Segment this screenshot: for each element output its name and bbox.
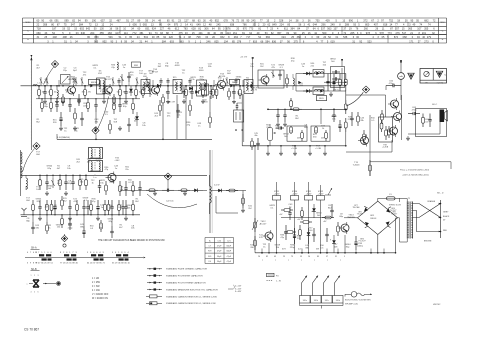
svg-text:15k: 15k: [332, 118, 336, 120]
shielded cable to volume: [241, 94, 243, 146]
supply plug ST11: [273, 196, 281, 201]
svg-text:4: 4: [128, 252, 130, 254]
svg-text:n47: n47: [129, 91, 132, 93]
switch SK-B arrow: [43, 283, 56, 285]
svg-text:47k: 47k: [87, 161, 91, 163]
resistor R48: [325, 130, 327, 133]
fuse F1: [387, 197, 396, 200]
svg-text:0.1: 0.1: [271, 208, 275, 210]
resistor R17b: [345, 74, 347, 80]
svg-text:602: 602: [80, 28, 85, 31]
elco C84: [97, 200, 99, 206]
svg-text:260: 260: [364, 28, 369, 31]
svg-text:BLACK: BLACK: [443, 215, 450, 218]
resistor R45: [290, 126, 292, 127]
wire AF bus: [268, 108, 346, 110]
svg-text:5: 5: [112, 252, 114, 254]
resistor R60: [381, 110, 383, 114]
capacitor C85: [111, 200, 113, 207]
svg-text:+1.3V: +1.3V: [292, 194, 298, 196]
svg-text:47p: 47p: [187, 125, 191, 127]
svg-text:TV 2577: TV 2577: [358, 241, 365, 243]
tuning gang C75: [89, 148, 103, 159]
diode GR6: [130, 86, 132, 89]
svg-text:M4.5: M4.5: [232, 82, 237, 84]
svg-text:5k6: 5k6: [117, 91, 120, 93]
svg-text:676: 676: [226, 28, 231, 31]
svg-text:642: 642: [86, 28, 91, 31]
svg-text:+1.7V: +1.7V: [252, 90, 258, 92]
svg-text:245: 245: [216, 24, 221, 27]
capacitor C47 af in: [257, 138, 259, 143]
svg-text:o: o: [288, 259, 289, 261]
svg-text:220: 220: [169, 36, 174, 39]
table inner dividers: [119, 26, 121, 34]
svg-text:220p: 220p: [199, 79, 205, 81]
resistor R73: [119, 181, 121, 186]
svg-text:952: 952: [215, 20, 220, 23]
antenna A1: [30, 58, 32, 151]
extra grounds below bus: [56, 100, 58, 102]
svg-text:546: 546: [109, 36, 114, 39]
svg-text:10k: 10k: [67, 168, 71, 170]
svg-text:249: 249: [331, 24, 336, 27]
svg-text:1n: 1n: [115, 168, 118, 170]
svg-text:10k: 10k: [131, 228, 135, 230]
resistor R46: [301, 130, 303, 133]
capacitor C6: [103, 86, 105, 92]
speaker box: [416, 109, 447, 137]
terminal strip right: [440, 200, 442, 238]
svg-text:137: 137: [333, 28, 338, 31]
resistor R41: [290, 98, 292, 101]
resistor R80: [32, 200, 34, 204]
resistor R22: [41, 99, 43, 103]
transistor TS12 regulator: [265, 232, 273, 240]
svg-text:2: 2: [34, 275, 35, 277]
wire bridge bottom down: [377, 235, 379, 253]
ground lf: [39, 216, 41, 218]
wire supply mid: [281, 217, 330, 219]
resistor R87: [118, 200, 120, 204]
wire bridge right down: [398, 217, 400, 219]
svg-text:WF AMP 2-(X): WF AMP 2-(X): [345, 303, 358, 306]
extra osc components: [85, 175, 87, 179]
capacitor C76: [125, 181, 127, 188]
wire ts12: [268, 243, 270, 253]
svg-text:5: 5: [34, 292, 35, 294]
svg-text:1: 1: [69, 252, 71, 254]
resistor R34 mid: [202, 87, 204, 90]
IF transformer S13 132/U007: [197, 80, 207, 96]
resistor R76: [178, 189, 181, 191]
svg-text:47k: 47k: [167, 116, 171, 118]
svg-text:0.1: 0.1: [280, 67, 284, 69]
svg-text:GR5: GR5: [370, 215, 375, 217]
svg-text:+1.2B: +1.2B: [291, 148, 297, 150]
resistor R14: [239, 86, 241, 90]
transistor TS11: [390, 127, 398, 135]
resistor R84: [76, 200, 78, 204]
svg-text:4k7: 4k7: [119, 227, 123, 229]
svg-text:5k6: 5k6: [48, 188, 52, 190]
svg-text:786: 786: [243, 24, 248, 27]
trimmer C50: [272, 70, 274, 78]
svg-text:+0V: +0V: [279, 214, 283, 216]
resistor R100: [299, 225, 301, 230]
supply plug ST40: [291, 196, 299, 201]
test point diamond TP2: [362, 86, 369, 93]
svg-text:5: 5: [87, 252, 89, 254]
svg-text:8k2: 8k2: [328, 208, 332, 210]
ground row 1: [44, 99, 46, 101]
svg-text:82p: 82p: [346, 246, 350, 248]
svg-text:024: 024: [282, 36, 287, 39]
resistor R83: [61, 215, 63, 219]
AF amp stage box TS6: [287, 126, 307, 141]
svg-text:R: R: [442, 39, 444, 41]
svg-text:204: 204: [90, 32, 95, 35]
svg-text:384: 384: [79, 24, 84, 27]
resistor R99: [322, 217, 325, 219]
svg-text:924: 924: [152, 28, 157, 31]
svg-text:849: 849: [272, 24, 277, 27]
capacitor C8: [125, 86, 127, 92]
wire ts3 down: [176, 95, 178, 139]
svg-text:6V3: 6V3: [282, 249, 286, 251]
diode GR10 zener: [308, 228, 310, 232]
svg-text:368: 368: [297, 36, 302, 39]
resistor R47: [315, 126, 317, 127]
svg-text:L1: L1: [38, 83, 41, 85]
svg-text:1k: 1k: [107, 91, 109, 93]
wire top right IF box: [331, 67, 345, 88]
resistor R25: [113, 99, 115, 104]
svg-text:1000: 1000: [199, 70, 205, 72]
svg-text:AC127: AC127: [260, 223, 267, 226]
detector coil box S14 top: [313, 70, 324, 78]
transformer T1 secondary winding: [412, 202, 414, 239]
svg-text:82p: 82p: [123, 106, 127, 108]
svg-text:6: 6: [96, 252, 98, 254]
volume control R44: [268, 128, 273, 141]
svg-text:SK1d: SK1d: [336, 300, 340, 302]
svg-text:220p: 220p: [290, 247, 296, 249]
capacitor C31: [69, 99, 71, 105]
svg-text:4: 4: [115, 252, 117, 254]
resistor R96: [254, 236, 256, 240]
svg-text:150: 150: [232, 91, 235, 93]
svg-text:47pF: 47pF: [227, 256, 232, 258]
svg-text:mA: mA: [399, 75, 403, 78]
capacitor C51: [279, 70, 281, 74]
svg-text:4 = 10V: 4 = 10V: [235, 286, 242, 288]
diode GR2 ratio bottom: [306, 89, 309, 93]
resistor R88: [132, 200, 134, 204]
svg-text:1: 1: [31, 275, 32, 277]
svg-text:4k7: 4k7: [66, 91, 69, 93]
ground osc: [46, 191, 48, 193]
svg-text:2-(8-68): 2-(8-68): [437, 82, 444, 84]
diode GR1 ratio top: [306, 72, 309, 76]
resistor R74: [132, 181, 134, 186]
loudspeaker LS1: [440, 110, 445, 123]
svg-text:SK1b: SK1b: [314, 300, 318, 302]
svg-text:068: 068: [403, 36, 408, 39]
svg-text:39k: 39k: [208, 66, 212, 68]
zener GR11: [333, 235, 335, 240]
switch SK-A contacts: [39, 254, 44, 256]
svg-text:487: 487: [117, 20, 122, 23]
capacitor C82: [69, 200, 71, 207]
svg-text:130: 130: [100, 28, 105, 31]
resistor R15b: [286, 74, 288, 78]
svg-text:990: 990: [349, 20, 354, 23]
svg-text:611: 611: [284, 28, 289, 31]
svg-text:8k2: 8k2: [57, 183, 61, 185]
svg-text:413: 413: [227, 32, 232, 35]
trimmer C39 mid: [149, 88, 151, 97]
legend symbol cap2: [147, 275, 154, 277]
svg-text:F1: F1: [389, 194, 392, 196]
svg-text:9: 9: [330, 240, 332, 242]
svg-text:3: 3: [76, 252, 78, 254]
wire primary top: [406, 199, 408, 202]
wire meter vertical: [400, 60, 402, 73]
label box B9: [317, 96, 327, 101]
resistor R52: [363, 130, 365, 134]
coil S3 fm: [117, 62, 118, 70]
resistor R27: [74, 108, 76, 113]
svg-text:7: 7: [72, 252, 74, 254]
capacitor selection table: [205, 237, 234, 239]
wire c22 arc: [147, 194, 197, 208]
svg-text:372: 372: [363, 20, 368, 23]
elco C88: [83, 226, 85, 231]
svg-text:1N4003: 1N4003: [370, 218, 376, 220]
wire st41 drop: [308, 200, 310, 253]
svg-text:107: 107: [115, 32, 120, 35]
svg-text:T1: T1: [408, 198, 411, 200]
IF transformer S15: [244, 80, 253, 94]
resistor R75: [146, 189, 149, 191]
wire supply rail 4.5V: [57, 138, 212, 140]
capacitor C89: [111, 226, 113, 231]
resistor R89: [46, 222, 48, 225]
wire long feedback top: [370, 161, 451, 163]
svg-text:517: 517: [402, 32, 407, 35]
svg-text:47p: 47p: [291, 61, 295, 63]
svg-text:058: 058: [43, 24, 48, 27]
svg-text:47p: 47p: [280, 237, 284, 239]
wire AM bus 2: [36, 98, 140, 100]
svg-text:51: 51: [51, 263, 54, 265]
svg-text:8: 8: [121, 252, 123, 254]
svg-text:47pF: 47pF: [217, 251, 222, 253]
svg-text:0.5: 0.5: [128, 182, 132, 184]
svg-text:355: 355: [100, 32, 105, 35]
resistor R35 mid: [212, 87, 214, 90]
extra lf components: [51, 200, 53, 204]
svg-text:838: 838: [230, 24, 235, 27]
svg-text:8k2: 8k2: [135, 201, 139, 203]
svg-text:752: 752: [389, 20, 394, 23]
test point diamond TP1: [51, 60, 58, 67]
svg-text:4: 4: [93, 252, 95, 254]
svg-text:68pF: 68pF: [227, 251, 232, 253]
resistor R70: [39, 175, 41, 179]
svg-text:9: 9: [30, 263, 32, 265]
svg-text:225: 225: [290, 131, 293, 133]
svg-text:2k2: 2k2: [63, 200, 67, 202]
wire vert feed det: [252, 58, 254, 86]
switch wafer SK-A line: [25, 257, 143, 259]
resistor R101: [337, 222, 339, 226]
wire testpoint TP1 curve: [44, 67, 55, 85]
svg-text:220p: 220p: [83, 106, 89, 108]
capacitor C86: [125, 200, 127, 207]
svg-text:4: 4: [99, 252, 101, 254]
svg-text:4 = GW: 4 = GW: [92, 290, 101, 292]
svg-text:8: 8: [60, 252, 62, 254]
svg-text:783: 783: [184, 28, 189, 31]
wire det rail bottom: [296, 90, 346, 92]
svg-text:8k2: 8k2: [36, 122, 40, 124]
svg-text:6k8: 6k8: [99, 227, 103, 229]
svg-text:FM1: FM1: [134, 65, 139, 67]
voltmeter symbol: [345, 293, 351, 295]
svg-text:537: 537: [321, 28, 326, 31]
capacitor C1: [44, 86, 46, 92]
ground inter: [242, 208, 244, 210]
coil S2: [56, 86, 58, 90]
svg-text:M4.5B: M4.5B: [91, 82, 98, 84]
svg-text:39k: 39k: [123, 91, 126, 93]
svg-text:187: 187: [52, 28, 57, 31]
svg-text:48n: 48n: [254, 135, 257, 137]
resistor R71: [59, 175, 61, 179]
svg-text:288: 288: [345, 24, 350, 27]
svg-text:220p: 220p: [348, 119, 354, 121]
diode GR14: [195, 90, 198, 94]
capacitor C96: [289, 207, 291, 213]
svg-text:39k: 39k: [119, 189, 123, 191]
switch SK1d: [333, 296, 344, 304]
svg-text:889: 889: [94, 36, 99, 39]
svg-text:8: 8: [90, 252, 92, 254]
coil S21 MW: [26, 178, 27, 189]
wire fm drop: [209, 96, 211, 112]
svg-text:C: C: [442, 30, 444, 32]
svg-text:15k: 15k: [276, 247, 280, 249]
node dot b: [239, 85, 241, 87]
resistor R86: [104, 200, 106, 204]
transistor TS3: [152, 86, 160, 94]
svg-text:22p: 22p: [63, 70, 67, 72]
svg-text:773: 773: [249, 28, 254, 31]
svg-text:2: 2: [63, 252, 65, 254]
svg-text:276: 276: [396, 32, 401, 35]
svg-text:220p: 220p: [68, 227, 74, 229]
svg-text:82p: 82p: [48, 168, 52, 170]
capacitor C5: [78, 94, 80, 99]
switch SK1a: [300, 296, 311, 304]
junction dots osc: [39, 175, 40, 176]
svg-text:31: 31: [335, 256, 337, 258]
svg-text:47pF: 47pF: [217, 246, 222, 248]
capacitor C14: [191, 86, 193, 92]
svg-text:852: 852: [103, 40, 108, 43]
svg-text:0.5: 0.5: [371, 120, 375, 122]
svg-text:296: 296: [321, 24, 326, 27]
diode GR8: [194, 189, 197, 193]
wire bridge top to fuse: [377, 198, 379, 201]
resistor R3: [62, 94, 64, 97]
svg-text:107: 107: [417, 28, 422, 31]
svg-text:5-6 W: 5-6 W: [214, 185, 219, 187]
svg-text:6k8: 6k8: [26, 200, 30, 202]
svg-text:39k: 39k: [305, 248, 309, 250]
wire osc bus: [21, 174, 208, 176]
capacitor C52: [327, 74, 329, 82]
resistor R102: [284, 231, 287, 233]
svg-text:FU: FU: [276, 276, 279, 278]
capacitor C94: [326, 228, 328, 234]
ground mid1: [183, 99, 185, 101]
switch SK1b: [311, 296, 322, 304]
capacitor C83: [83, 200, 85, 207]
svg-text:0: 0: [47, 252, 49, 254]
resistor R33 mid: [142, 87, 144, 90]
wire reg out: [344, 235, 346, 253]
svg-text:o: o: [301, 259, 302, 261]
svg-text:0.5: 0.5: [105, 114, 109, 116]
svg-text:7: 7: [30, 252, 32, 254]
wire feedback: [369, 115, 371, 160]
wire sec top cross a: [413, 204, 441, 218]
capacitor C37: [128, 118, 130, 124]
svg-text:1000u: 1000u: [357, 246, 364, 248]
elco C81: [54, 200, 56, 206]
svg-text:091: 091: [55, 20, 60, 23]
svg-text:2k2: 2k2: [248, 208, 252, 210]
svg-text:15k: 15k: [57, 227, 61, 229]
svg-text:4.5V(MAINS): 4.5V(MAINS): [57, 136, 70, 139]
svg-text:684: 684: [266, 36, 271, 39]
capacitor C95: [331, 204, 333, 210]
resistor R12: [216, 86, 218, 90]
svg-text:1k: 1k: [182, 72, 185, 74]
svg-text:C7: C7: [209, 246, 212, 248]
transistor TS1: [68, 86, 76, 94]
capacitor C32: [95, 99, 97, 105]
wire out top: [385, 95, 387, 117]
svg-text:22n: 22n: [125, 169, 129, 171]
svg-text:832: 832: [220, 36, 225, 39]
elco C93: [355, 236, 357, 242]
label box AM: [230, 79, 240, 84]
transistor TS2: [104, 86, 112, 94]
ground af1: [277, 122, 279, 124]
battery meter M1: [398, 73, 405, 80]
bridge rectifier GR5: [358, 201, 398, 234]
resistor R97: [281, 209, 284, 211]
node dot bus a: [38, 85, 40, 87]
svg-text:BROWN: BROWN: [424, 241, 432, 243]
svg-text:22n: 22n: [130, 74, 134, 76]
resistor R90: [226, 190, 229, 192]
svg-text:83: 83: [317, 256, 319, 258]
